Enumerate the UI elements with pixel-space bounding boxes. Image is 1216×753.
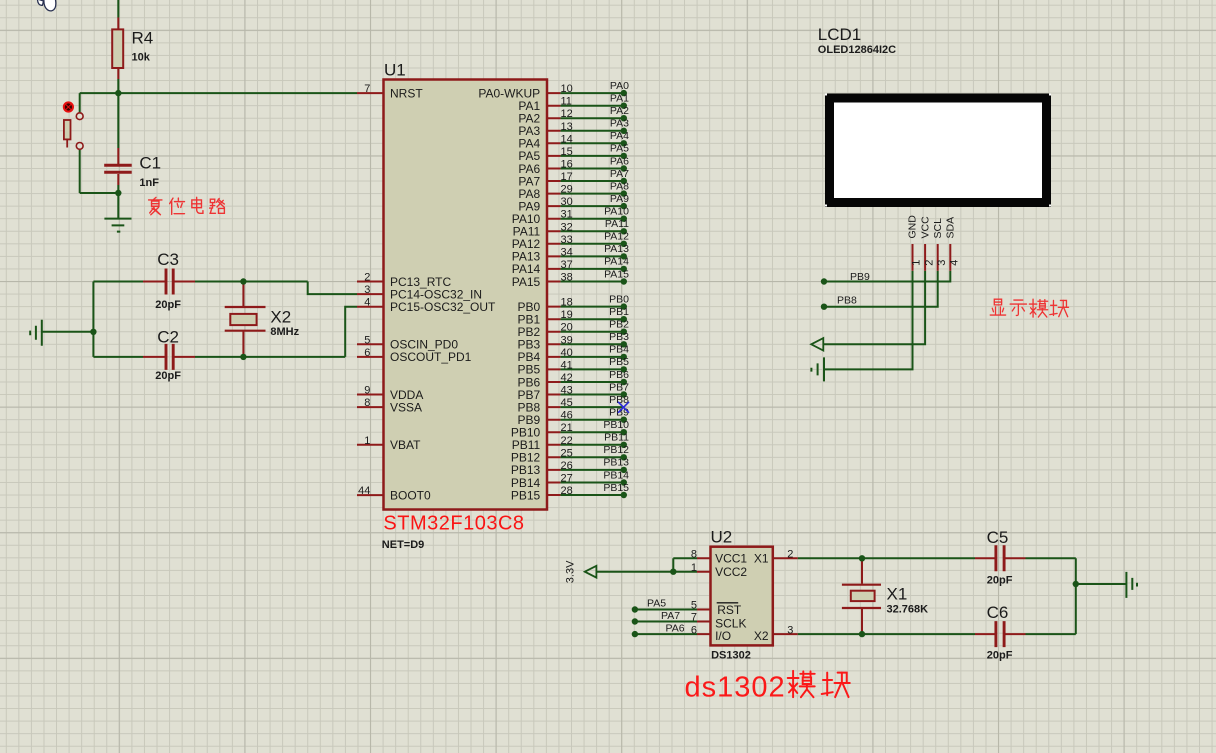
svg-text:X1: X1 — [887, 585, 908, 604]
svg-text:40: 40 — [561, 347, 573, 359]
svg-text:X2: X2 — [754, 629, 769, 643]
svg-text:25: 25 — [561, 447, 573, 459]
svg-text:PB3: PB3 — [609, 331, 629, 343]
svg-text:33: 33 — [561, 234, 573, 246]
svg-text:VCC2: VCC2 — [715, 565, 747, 579]
svg-text:3: 3 — [364, 284, 370, 296]
svg-text:PB1: PB1 — [609, 306, 629, 318]
svg-text:8: 8 — [691, 549, 697, 561]
svg-text:20: 20 — [561, 322, 573, 334]
svg-text:PB14: PB14 — [603, 469, 629, 481]
svg-text:29: 29 — [561, 184, 573, 196]
svg-text:PB10: PB10 — [603, 419, 629, 431]
svg-text:6: 6 — [691, 624, 697, 636]
svg-text:46: 46 — [561, 410, 573, 422]
svg-text:PB0: PB0 — [609, 293, 629, 305]
svg-text:PA6: PA6 — [666, 622, 685, 634]
svg-text:14: 14 — [561, 133, 573, 145]
svg-text:PA15: PA15 — [604, 268, 629, 280]
svg-text:C3: C3 — [157, 250, 179, 269]
svg-text:43: 43 — [561, 385, 573, 397]
svg-text:8: 8 — [364, 397, 370, 409]
svg-text:SDA: SDA — [945, 217, 957, 239]
svg-text:32: 32 — [561, 221, 573, 233]
svg-text:U2: U2 — [711, 527, 733, 546]
svg-text:STM32F103C8: STM32F103C8 — [383, 512, 524, 534]
svg-text:U1: U1 — [384, 61, 406, 80]
svg-text:6: 6 — [364, 347, 370, 359]
svg-text:C5: C5 — [987, 528, 1009, 547]
svg-text:PB13: PB13 — [603, 457, 629, 469]
svg-text:16: 16 — [561, 159, 573, 171]
svg-text:NET=D9: NET=D9 — [382, 539, 425, 551]
svg-text:27: 27 — [561, 473, 573, 485]
svg-text:PA1: PA1 — [610, 93, 629, 105]
svg-text:41: 41 — [561, 359, 573, 371]
svg-text:15: 15 — [561, 146, 573, 158]
svg-text:30: 30 — [561, 196, 573, 208]
svg-text:8MHz: 8MHz — [270, 326, 299, 338]
svg-text:20pF: 20pF — [155, 370, 181, 382]
svg-text:PB6: PB6 — [609, 369, 629, 381]
svg-text:PB15: PB15 — [511, 488, 541, 502]
svg-text:PA14: PA14 — [604, 256, 629, 268]
svg-text:RST: RST — [717, 603, 742, 617]
svg-text:R4: R4 — [132, 29, 154, 48]
svg-text:VCC: VCC — [919, 216, 931, 239]
svg-text:10: 10 — [561, 83, 573, 95]
svg-text:BOOT0: BOOT0 — [390, 488, 431, 502]
svg-text:3: 3 — [787, 624, 793, 636]
svg-text:I/O: I/O — [715, 629, 731, 643]
svg-text:PA12: PA12 — [604, 231, 629, 243]
svg-text:DS1302: DS1302 — [711, 650, 751, 662]
svg-text:28: 28 — [561, 485, 573, 497]
svg-text:5: 5 — [364, 334, 370, 346]
svg-text:34: 34 — [561, 246, 573, 258]
svg-text:PA11: PA11 — [605, 218, 629, 230]
svg-text:ds1302: ds1302 — [685, 672, 786, 704]
svg-text:20pF: 20pF — [155, 299, 181, 311]
svg-text:10k: 10k — [132, 52, 151, 64]
svg-text:PA15: PA15 — [512, 275, 541, 289]
svg-text:PA0: PA0 — [610, 80, 629, 92]
svg-text:31: 31 — [561, 209, 573, 221]
svg-text:1: 1 — [691, 562, 697, 574]
svg-text:39: 39 — [561, 334, 573, 346]
svg-text:PC15-OSC32_OUT: PC15-OSC32_OUT — [390, 300, 496, 314]
svg-text:PB9: PB9 — [850, 271, 870, 283]
svg-text:PB11: PB11 — [604, 432, 629, 444]
svg-text:9: 9 — [364, 385, 370, 397]
svg-text:PA5: PA5 — [647, 598, 666, 610]
svg-text:PA9: PA9 — [610, 193, 629, 205]
svg-text:LCD1: LCD1 — [818, 25, 861, 44]
svg-text:GND: GND — [907, 215, 919, 239]
svg-text:45: 45 — [561, 397, 573, 409]
svg-text:1: 1 — [911, 260, 923, 266]
svg-text:C6: C6 — [987, 603, 1009, 622]
svg-text:2: 2 — [364, 272, 370, 284]
svg-text:PB8: PB8 — [837, 295, 857, 307]
svg-text:PB2: PB2 — [609, 319, 629, 331]
svg-text:PA4: PA4 — [610, 130, 629, 142]
svg-text:C2: C2 — [157, 328, 179, 347]
svg-text:PB15: PB15 — [603, 482, 629, 494]
svg-text:X1: X1 — [754, 552, 769, 566]
svg-text:19: 19 — [561, 309, 573, 321]
svg-text:PA7: PA7 — [610, 168, 629, 180]
svg-text:PA6: PA6 — [610, 155, 629, 167]
svg-text:38: 38 — [561, 272, 573, 284]
svg-text:SCL: SCL — [932, 218, 944, 239]
svg-text:VBAT: VBAT — [390, 438, 421, 452]
svg-text:3.3V: 3.3V — [565, 560, 577, 583]
svg-text:2: 2 — [787, 549, 793, 561]
svg-text:7: 7 — [364, 83, 370, 95]
svg-text:OLED12864I2C: OLED12864I2C — [818, 44, 896, 56]
svg-text:PB5: PB5 — [609, 356, 629, 368]
svg-text:11: 11 — [561, 96, 572, 108]
svg-text:PA10: PA10 — [604, 206, 629, 218]
svg-text:PA5: PA5 — [610, 143, 629, 155]
svg-text:PA7: PA7 — [661, 610, 680, 622]
svg-text:20pF: 20pF — [987, 649, 1013, 661]
svg-text:NRST: NRST — [390, 86, 423, 100]
svg-text:X2: X2 — [270, 308, 291, 327]
svg-text:VSSA: VSSA — [390, 400, 422, 414]
svg-text:4: 4 — [364, 297, 370, 309]
svg-text:37: 37 — [561, 259, 573, 271]
svg-text:VCC1: VCC1 — [715, 552, 747, 566]
svg-text:18: 18 — [561, 297, 573, 309]
svg-text:3: 3 — [936, 260, 948, 266]
svg-text:26: 26 — [561, 460, 573, 472]
svg-text:PA2: PA2 — [610, 105, 629, 117]
svg-text:1nF: 1nF — [139, 177, 159, 189]
svg-text:21: 21 — [561, 422, 573, 434]
svg-text:2: 2 — [923, 260, 935, 266]
svg-text:4: 4 — [949, 260, 961, 266]
svg-text:PA3: PA3 — [610, 118, 629, 130]
svg-text:44: 44 — [358, 485, 370, 497]
svg-text:PB12: PB12 — [603, 444, 629, 456]
svg-text:1: 1 — [364, 435, 370, 447]
svg-text:17: 17 — [561, 171, 573, 183]
svg-text:PA13: PA13 — [604, 243, 629, 255]
svg-text:PB4: PB4 — [609, 344, 629, 356]
svg-text:C1: C1 — [139, 153, 161, 172]
svg-text:PA8: PA8 — [610, 180, 629, 192]
svg-text:32.768K: 32.768K — [887, 604, 929, 616]
svg-text:22: 22 — [561, 435, 573, 447]
svg-text:PB7: PB7 — [609, 381, 629, 393]
svg-text:7: 7 — [691, 612, 697, 624]
svg-text:5: 5 — [691, 600, 697, 612]
svg-text:20pF: 20pF — [987, 575, 1013, 587]
svg-text:12: 12 — [561, 108, 573, 120]
svg-text:42: 42 — [561, 372, 573, 384]
svg-text:OSCOUT_PD1: OSCOUT_PD1 — [390, 350, 472, 364]
svg-text:13: 13 — [561, 121, 573, 133]
